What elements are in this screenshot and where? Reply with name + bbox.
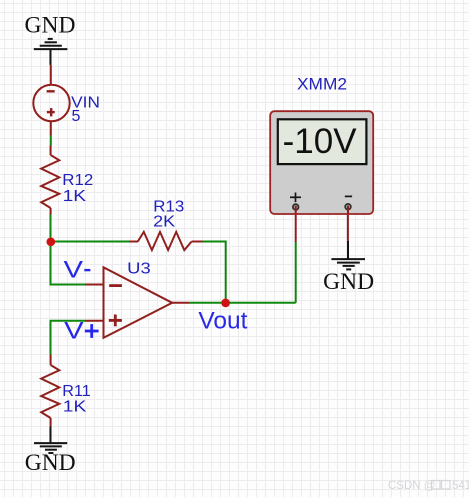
svg-text:GND: GND <box>25 13 76 39</box>
node Vout junction dot <box>221 299 230 308</box>
resistor R11 <box>41 355 59 427</box>
wire VIN to R12 (lead) <box>50 121 52 135</box>
multimeter - terminal mark <box>345 195 352 197</box>
multimeter - lead <box>347 208 349 241</box>
svg-text:2K: 2K <box>153 213 175 230</box>
multimeter - pin lead over terminal <box>347 206 349 215</box>
ground symbol (top, inverted) <box>34 39 68 65</box>
wire (green) VIN-R12 <box>50 136 52 146</box>
svg-text:1K: 1K <box>63 398 87 415</box>
op-amp non-inverting input lead <box>85 320 104 322</box>
svg-text:541: 541 <box>452 480 469 492</box>
svg-text:XMM2: XMM2 <box>297 75 347 94</box>
multimeter + terminal pin <box>293 204 299 210</box>
op-amp U3 <box>104 267 173 338</box>
wire R13 to output node <box>203 242 226 303</box>
multimeter + lead <box>295 208 297 242</box>
wire op-amp non-inverting input to R11 <box>51 321 86 355</box>
source VIN <box>33 85 69 121</box>
multimeter + pin lead over terminal <box>295 206 297 214</box>
op-amp inverting input lead <box>85 284 104 286</box>
multimeter display screen <box>278 119 367 164</box>
svg-text:CSDN @: CSDN @ <box>388 480 435 492</box>
resistor R13 <box>129 232 203 250</box>
wire R12 to node A <box>50 215 52 242</box>
multimeter + terminal mark <box>290 193 301 203</box>
svg-text:R12: R12 <box>62 172 93 189</box>
svg-text:R11: R11 <box>62 383 91 400</box>
svg-text:Vout: Vout <box>198 307 247 334</box>
svg-text:GND: GND <box>323 269 374 295</box>
svg-text:1K: 1K <box>63 188 87 205</box>
ground symbol (bottom left) <box>34 427 67 454</box>
svg-text:V: V <box>64 256 84 283</box>
svg-text:U3: U3 <box>127 260 151 277</box>
ground symbol (multimeter) <box>331 241 365 270</box>
wire node A to R13 <box>51 241 130 243</box>
wire node A to op-amp inverting input <box>51 242 86 285</box>
multimeter - terminal pin <box>345 204 351 210</box>
svg-text:5: 5 <box>72 108 81 125</box>
wire multimeter + terminal <box>295 242 297 303</box>
node A junction dot <box>46 237 55 246</box>
svg-text:-10V: -10V <box>283 122 358 161</box>
resistor R12 <box>41 146 59 215</box>
svg-text:GND: GND <box>25 450 76 476</box>
multimeter XMM2 body <box>270 111 373 214</box>
wire VIN pin to ground <box>50 65 52 85</box>
watermark <box>388 480 469 492</box>
op-amp output lead <box>172 302 189 304</box>
wire output to multimeter <box>189 302 296 304</box>
